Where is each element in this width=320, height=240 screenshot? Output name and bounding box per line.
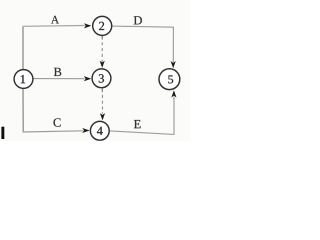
label C bbox=[53, 118, 60, 126]
arrowhead of dummy into node 3 top bbox=[100, 61, 105, 68]
wire C: from node 1 down then right to node 4 bbox=[22, 89, 24, 132]
node 3 (event circle) bbox=[92, 69, 111, 88]
wire E: from node 4 right then up to node 5 bbox=[110, 97, 174, 135]
arrowhead of activity B into node 3 bbox=[84, 76, 91, 81]
arrowhead of activity E into node 5 bottom bbox=[171, 90, 176, 97]
wire A: from node 1 up then right to node 2 bbox=[22, 27, 24, 69]
wire B: from node 1 right to node 3 bbox=[33, 78, 85, 80]
arrowhead of activity A into node 2 bbox=[84, 23, 91, 28]
dummy activity (dashed) node 3 to node 4 bbox=[101, 89, 103, 92]
wire D: from node 2 right then down to node 5 bbox=[112, 26, 173, 62]
node 1 (event circle) bbox=[14, 70, 33, 89]
arrowhead of activity C into node 4 bbox=[82, 128, 89, 133]
node 5 (event circle) bbox=[159, 69, 180, 90]
label A bbox=[51, 16, 59, 24]
label D bbox=[134, 16, 142, 24]
stray ink mark at left edge bbox=[1, 127, 4, 139]
node 2 (event circle) bbox=[93, 16, 112, 35]
dummy activity (dashed) node 2 to node 3 bbox=[101, 36, 103, 39]
node 4 (event circle) bbox=[90, 121, 109, 140]
label B bbox=[54, 68, 61, 76]
arrowhead of dummy into node 4 top bbox=[100, 113, 105, 120]
label E bbox=[134, 120, 141, 128]
arrowhead of activity D into node 5 top bbox=[171, 61, 176, 68]
